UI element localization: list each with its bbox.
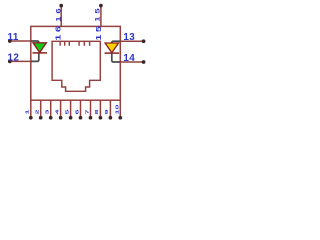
svg-text:9: 9 <box>103 109 109 114</box>
LED D2 yellow triangle <box>105 43 118 53</box>
LED D2 cathode link <box>112 54 121 62</box>
svg-text:4: 4 <box>54 109 60 114</box>
wire pin12 <box>10 60 31 62</box>
LED D2 anode link <box>112 41 121 43</box>
pin 1 endpoint dot <box>29 116 33 120</box>
pin 12 endpoint dot <box>8 60 12 64</box>
pin 16 endpoint dot <box>59 4 63 8</box>
svg-text:11: 11 <box>8 32 19 43</box>
wire pin15 <box>100 7 102 26</box>
LED D2 cathode bar <box>105 52 120 54</box>
pin 5 endpoint dot <box>69 116 73 120</box>
wire pin8 <box>99 100 101 117</box>
svg-text:2: 2 <box>34 109 40 114</box>
wire pin3 <box>50 100 52 117</box>
RJ45 socket outline <box>52 41 100 91</box>
svg-text:1: 1 <box>24 109 30 114</box>
pin 6 endpoint dot <box>79 116 83 120</box>
wire pin10 <box>119 100 121 117</box>
svg-text:13: 13 <box>123 32 135 43</box>
svg-text:15: 15 <box>94 24 103 41</box>
pin 15 endpoint dot <box>99 4 103 8</box>
svg-text:5: 5 <box>64 109 70 114</box>
wire pin6 <box>80 100 82 117</box>
wire pin1 <box>30 100 32 117</box>
pin 10 endpoint dot <box>118 116 122 120</box>
svg-text:16: 16 <box>55 6 62 22</box>
pin 3 endpoint dot <box>49 116 53 120</box>
svg-text:8: 8 <box>93 109 99 114</box>
svg-text:10: 10 <box>114 104 120 114</box>
wire pin14 <box>120 61 143 63</box>
svg-text:3: 3 <box>44 109 50 114</box>
LED D1 green triangle <box>33 43 46 53</box>
svg-text:6: 6 <box>74 109 80 114</box>
pin 14 endpoint dot <box>142 60 146 64</box>
socket contact ticks <box>60 41 90 46</box>
LED D1 cathode bar <box>33 52 48 54</box>
wire pin4 <box>60 100 62 117</box>
wire pin11 <box>10 40 31 42</box>
svg-text:7: 7 <box>84 109 90 114</box>
svg-text:12: 12 <box>8 52 20 63</box>
svg-text:14: 14 <box>123 53 135 64</box>
pin 7 endpoint dot <box>89 116 93 120</box>
pin 2 endpoint dot <box>39 116 43 120</box>
pin 11 endpoint dot <box>8 39 12 43</box>
wire pin7 <box>90 100 92 117</box>
pin 13 endpoint dot <box>142 39 146 43</box>
svg-text:15: 15 <box>94 6 101 22</box>
pin 9 endpoint dot <box>109 116 113 120</box>
wire pin13 <box>120 40 143 42</box>
connector J1 body <box>31 26 121 100</box>
wire pin2 <box>40 100 42 117</box>
pin 4 endpoint dot <box>59 116 63 120</box>
pin 8 endpoint dot <box>99 116 103 120</box>
svg-text:16: 16 <box>54 24 63 41</box>
LED D1 anode link <box>31 41 39 43</box>
wire pin9 <box>109 100 111 117</box>
wire pin16 <box>60 7 62 26</box>
LED D1 cathode link <box>31 53 39 61</box>
wire pin5 <box>70 100 72 117</box>
